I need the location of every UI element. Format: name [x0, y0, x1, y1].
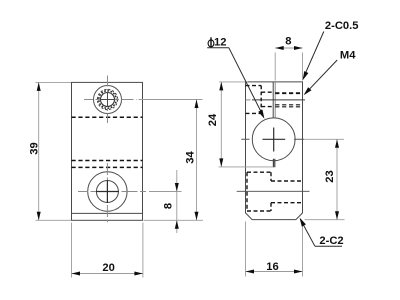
dimension 39 line [38, 82, 40, 220]
dimension 34 arrow up [195, 100, 199, 109]
dimension 34 arrow down [195, 212, 199, 221]
dimension 20 line [72, 273, 143, 275]
right view outline [246, 82, 303, 220]
svg-text:8: 8 [163, 203, 175, 209]
phi12 hole circle [252, 118, 295, 161]
hidden: bottom counterbore bottom [247, 210, 271, 212]
dimension 8 left-view line [176, 170, 178, 233]
hidden: bottom small hole bottom [271, 202, 303, 204]
dimension 8 left-view arrow upper (points down) [175, 183, 179, 192]
dimension 23 arrow down [335, 211, 339, 220]
dimension 8 top arrow right [294, 46, 303, 50]
centerline vertical bottom hole [106, 163, 108, 222]
centerline vertical top hole [107, 76, 109, 124]
label phi12 symbol [208, 37, 214, 47]
leader 2-C0.5 arrowhead [303, 71, 309, 80]
svg-text:23: 23 [324, 170, 336, 182]
leader 2-C2 shoulder [315, 245, 342, 247]
hidden: bottom small hole top [271, 180, 303, 182]
left view outline [72, 82, 143, 220]
slit right edge [274, 82, 276, 118]
dimension 20 arrow right [134, 272, 143, 276]
hidden: M4 thread bottom minor [275, 106, 302, 108]
svg-text:2-C0.5: 2-C0.5 [325, 20, 359, 32]
chamfer edge line (C2) left view [72, 212, 143, 214]
hidden: clearance hole bottom [261, 106, 273, 108]
dimension 8 top extension left [274, 53, 276, 81]
dimension 24 extension top [219, 81, 248, 83]
svg-text:20: 20 [102, 262, 114, 274]
leader 2-C0.5 [303, 32, 323, 78]
dimension 16 extension left [245, 222, 247, 277]
M4 axis line [252, 99, 305, 101]
centerline horizontal bottom hole [78, 191, 146, 193]
leader M4 arrowhead [304, 87, 312, 95]
hidden: M4 thread top [275, 92, 302, 94]
dimension 8 left-view arrow lower (points up) [175, 220, 179, 229]
top hole counterbore circle [94, 86, 122, 114]
dimension 23 extension bottom [305, 219, 345, 221]
hidden: counterbore top (right view) [246, 85, 262, 87]
leader 2-C2 arrowhead [300, 218, 306, 227]
svg-text:16: 16 [266, 261, 278, 273]
dimension 20 extension left [71, 223, 73, 278]
dimension 20 extension right [142, 223, 144, 278]
hidden: bottom counterbore face vertical [270, 172, 272, 211]
svg-text:34: 34 [185, 151, 197, 164]
hidden: clearance hole top [261, 91, 273, 93]
centerline horizontal top hole [84, 99, 137, 101]
dimension 16 arrow right [294, 270, 303, 274]
leader phi12 [229, 48, 263, 115]
leader phi12 shoulder [207, 47, 229, 49]
dimension 24 line [220, 82, 222, 167]
dimension 16 arrow left [246, 270, 255, 274]
dimension 16 line [246, 271, 303, 273]
slit left edge [272, 82, 274, 118]
svg-text:M4: M4 [340, 49, 356, 61]
phi12 center cross [263, 128, 286, 152]
dimension 23 line [336, 139, 338, 219]
dimension 39 arrow up [37, 82, 41, 91]
dimension 24 arrow down [219, 158, 223, 167]
bottom hole inner circle [96, 181, 118, 203]
dimension 20 arrow left [72, 272, 81, 276]
dimension 23 extension top [305, 138, 344, 140]
dimension 39 arrow down [37, 212, 41, 221]
hidden: counterbore face vertical [260, 86, 262, 114]
dimension 24 extension bottom [219, 166, 274, 168]
slit below hole [273, 159, 274, 168]
svg-text:12: 12 [214, 37, 226, 49]
dimension 34 line [196, 100, 198, 221]
svg-text:2-C2: 2-C2 [319, 235, 343, 247]
phi12 centerline ticks [241, 138, 304, 140]
top hole inner circle [101, 93, 115, 107]
top hole center cross [100, 92, 115, 107]
bottom hole center cross [96, 180, 119, 203]
dimension 39 extension top [36, 81, 72, 83]
dimension 8 left-view extension [149, 191, 182, 193]
dimension 23 arrow up [335, 139, 339, 148]
leader M4 [305, 60, 337, 94]
hidden: counterbore bottom (right view) [246, 112, 262, 114]
leader phi12 arrowhead [258, 110, 264, 119]
dimension 34 extension top [139, 99, 203, 101]
top hole thread ring [99, 91, 116, 108]
dimension 34 extension bottom [144, 219, 204, 221]
centerline bottom hole axis (right view) [237, 190, 310, 192]
hidden: M4 thread bottom major [275, 104, 302, 106]
hidden line: slit bottom [72, 166, 143, 168]
svg-text:24: 24 [207, 113, 219, 126]
hidden: bottom counterbore left vertical [246, 172, 248, 211]
dimension 8 top line [275, 47, 302, 49]
dimension 39 extension bottom [36, 219, 72, 221]
dimension 8 top extension right [302, 53, 304, 81]
svg-text:8: 8 [285, 36, 291, 48]
leader 2-C2 [300, 219, 315, 246]
dimension 16 extension right [302, 221, 304, 277]
hidden: bottom counterbore top [247, 171, 271, 173]
dimension 8 top arrow left [275, 46, 284, 50]
hidden line: phi12 hole top [72, 116, 143, 118]
M4 axis centerline lead-in [246, 99, 251, 101]
bottom hole counterbore circle [88, 172, 127, 211]
dimension 24 arrow up [219, 82, 223, 91]
hidden line: phi12 hole bottom [72, 160, 143, 162]
svg-text:39: 39 [29, 142, 41, 154]
